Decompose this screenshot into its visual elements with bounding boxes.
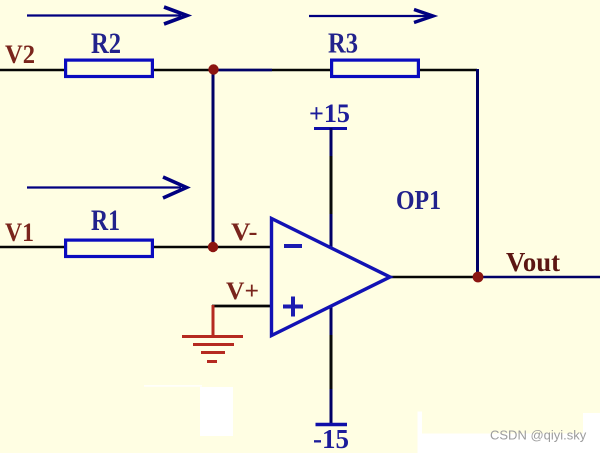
wire node C to Vout [478,276,600,279]
wire +15 stub navy [330,128,333,158]
white patch left (erased area) [144,385,233,436]
resistor R2 [66,60,153,76]
wire R2 to node A [152,69,213,72]
wire op-amp output to node C [390,276,478,279]
wire +15 to op-amp top navy [330,214,333,249]
arrow top-right [309,10,433,23]
-15 supply bar [316,423,348,426]
white patch bottom-right (watermark panel) [418,412,600,453]
svg-text:V1: V1 [5,218,34,247]
wire +15 black segment [330,156,333,216]
op-amp U1 triangle [272,219,391,336]
wire feedback vertical [476,69,479,277]
resistor R1 [66,240,153,256]
node C junction dot [473,272,484,283]
wire op-amp bottom navy [330,303,333,337]
svg-text:CSDN @qiyi.sky: CSDN @qiyi.sky [490,428,587,443]
wire V2 input to R2 [0,69,67,72]
op-amp minus sign [284,244,302,248]
wire link node A to node B [212,70,215,247]
node A junction dot [208,64,218,74]
resistor R3 [332,60,419,76]
+15 supply bar [314,127,347,130]
svg-text:V+: V+ [226,276,259,305]
op-amp plus sign [283,297,303,317]
svg-text:+15: +15 [309,99,350,128]
node B junction dot [208,242,218,252]
svg-text:V-: V- [231,217,258,246]
ground [182,305,243,362]
arrow top-left [27,7,187,24]
wire node B to op-amp inverting input [213,246,271,249]
svg-text:V2: V2 [5,40,35,69]
svg-text:R2: R2 [91,27,121,60]
wire V1 input to R1 [0,246,67,249]
wire -15 stub navy [330,389,333,424]
svg-text:R1: R1 [91,204,120,237]
wire R1 to node B [152,246,213,249]
wire ground to op-amp non-inverting input [212,305,271,308]
svg-text:OP1: OP1 [396,185,441,215]
wire -15 black segment [330,335,333,391]
wire node A to R3 [272,69,333,72]
svg-text:R3: R3 [328,28,358,60]
wire R3 to feedback corner [417,69,477,72]
svg-text:Vout: Vout [506,247,560,277]
arrow middle [27,177,187,198]
wire node A navy stub [213,69,272,72]
svg-text:-15: -15 [313,423,349,453]
